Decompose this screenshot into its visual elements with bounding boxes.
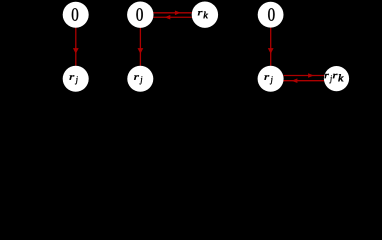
node r_j (diagram 1 bottom) [63, 66, 89, 92]
node 0 (diagram 2 top left) [127, 2, 153, 28]
node 0 (diagram 1 top) [63, 2, 89, 28]
node r_j (diagram 2 bottom) [127, 66, 153, 92]
wire: diagram 1 vertical edge 0 -> r_j [73, 28, 79, 66]
wire: diagram 3 vertical edge 0 -> r_j [268, 28, 274, 66]
node r_j (diagram 3 bottom left) [258, 66, 284, 92]
node r_k (diagram 2 top right) [192, 2, 218, 28]
wire: diagram 2 bottom arrow r_k -> 0 [153, 15, 192, 20]
wire: diagram 2 top arrow 0 -> r_k [153, 11, 192, 16]
wire: diagram 3 top arrow r_j -> r_jr_k [283, 73, 324, 78]
node 0 (diagram 3 top) [258, 2, 284, 28]
node r_j r_k (diagram 3 bottom right) [324, 66, 349, 91]
wire: diagram 2 vertical edge 0 -> r_j [138, 28, 144, 66]
wire: diagram 3 bottom arrow r_jr_k -> r_j [283, 78, 324, 83]
